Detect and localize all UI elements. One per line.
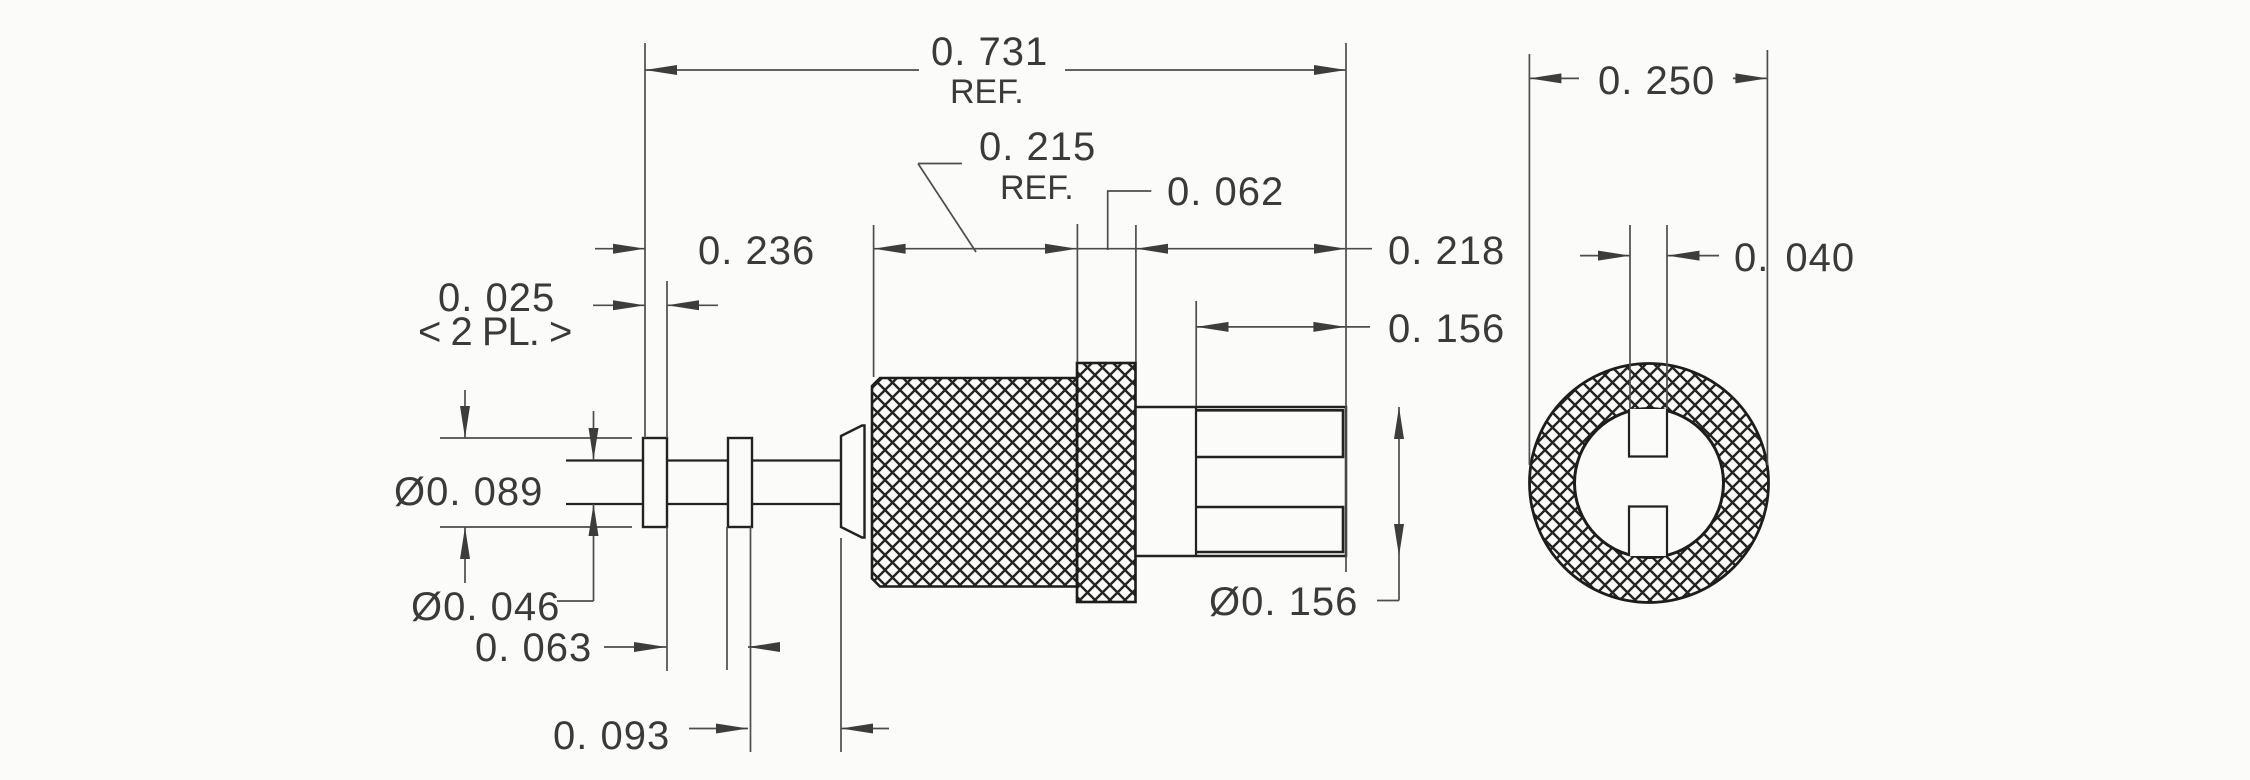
leader 0.215 slant bbox=[918, 164, 976, 253]
ext line cone left lower bbox=[840, 538, 842, 752]
knurl flange bbox=[1077, 363, 1136, 602]
bottom slot bbox=[1629, 507, 1667, 557]
ext line 0.731 right bbox=[1345, 43, 1347, 572]
arrow 0.093 right (points left) bbox=[841, 724, 873, 734]
ext line slot right 0.040 bbox=[1666, 225, 1668, 409]
dim line 0.025 bbox=[593, 304, 718, 306]
arrow 0.093 left (points right) bbox=[716, 724, 748, 734]
dim line 0.156 right side bbox=[1196, 326, 1370, 328]
svg-text:Ø0. 046: Ø0. 046 bbox=[411, 585, 560, 629]
svg-text:0. 250: 0. 250 bbox=[1598, 59, 1715, 103]
ext line slot left 0.040 bbox=[1629, 225, 1631, 409]
arrow dia156 top (points up) bbox=[1394, 407, 1404, 439]
ext line washer1 right upper bbox=[666, 281, 668, 438]
arrow 0.250 right (points right) bbox=[1735, 73, 1767, 83]
ext line washer1 right lower bbox=[666, 527, 668, 671]
arrow 0.156 left (points left) bbox=[1197, 322, 1229, 332]
svg-text:REF.: REF. bbox=[950, 73, 1024, 111]
svg-text:Ø0. 089: Ø0. 089 bbox=[394, 470, 543, 514]
dim line 0.040 bbox=[1580, 255, 1719, 257]
dim line 0.731 bbox=[645, 69, 1346, 71]
pin between washer2 and cone bbox=[752, 461, 841, 505]
slot lower tine bbox=[1196, 507, 1343, 552]
ext line 0.731 left bbox=[644, 43, 646, 438]
svg-text:Ø0. 156: Ø0. 156 bbox=[1209, 580, 1358, 624]
arrow 0.040 left (points right) bbox=[1598, 251, 1630, 261]
washer 1 bbox=[643, 438, 667, 527]
pin left stub edges bbox=[566, 461, 645, 505]
svg-text:0. 215: 0. 215 bbox=[979, 125, 1096, 169]
ext line 0.250 right bbox=[1766, 50, 1768, 465]
ext line flange left bbox=[1076, 224, 1078, 362]
svg-text:0. 093: 0. 093 bbox=[553, 714, 670, 758]
dim line 0.215 / 0.062 / 0.218 bbox=[874, 248, 1372, 250]
arrow 0.731 left bbox=[645, 65, 677, 75]
arrow dia046 bottom (points up) bbox=[589, 504, 599, 536]
svg-text:0. 731: 0. 731 bbox=[931, 30, 1048, 74]
dim line 0.093 bbox=[689, 728, 889, 730]
arrow dia156 bottom (points down) bbox=[1394, 524, 1404, 556]
svg-text:< 2 PL. >: < 2 PL. > bbox=[418, 310, 571, 354]
slot upper tine bbox=[1196, 410, 1343, 457]
arrow dia089 top (points down) bbox=[460, 406, 470, 438]
svg-text:0. 156: 0. 156 bbox=[1388, 307, 1505, 351]
arrow 0.215 left (points left) bbox=[874, 244, 906, 254]
inner bore bbox=[1575, 409, 1724, 558]
arrowheads bbox=[460, 65, 1767, 734]
rear cylinder slot inner end bbox=[1195, 407, 1197, 556]
arrow 0.731 right bbox=[1314, 65, 1346, 75]
ext line 0.250 left bbox=[1528, 54, 1530, 465]
dia 0.156 dim line vertical bbox=[1377, 407, 1399, 601]
ext line slot start bbox=[1195, 301, 1197, 406]
top slot bbox=[1629, 409, 1667, 457]
arrow 0.062 right (points left) bbox=[1136, 244, 1168, 254]
dia 0.046 arrow shafts bbox=[557, 411, 594, 601]
svg-text:0. 218: 0. 218 bbox=[1388, 229, 1505, 273]
arrow 0.025 left (points right) bbox=[613, 300, 645, 310]
arrow 0.218 right (points right) bbox=[1314, 244, 1346, 254]
arrow 0.063 right (points left) bbox=[748, 642, 780, 652]
svg-text:0. 063: 0. 063 bbox=[475, 626, 592, 670]
washer 2 bbox=[728, 438, 752, 527]
arrow 0.025 right (points left) bbox=[667, 300, 699, 310]
arrow 0.236 left (points right) bbox=[613, 244, 645, 254]
ext line washer2 left lower bbox=[726, 527, 728, 670]
dim line 0.063 bbox=[604, 646, 777, 648]
arrow 0.063 left (points right) bbox=[634, 642, 666, 652]
ext line knurl left bbox=[873, 225, 875, 377]
svg-text:0. 062: 0. 062 bbox=[1167, 170, 1284, 214]
dia 0.089 leader bottom bbox=[440, 526, 632, 528]
arrow 0.250 left (points left) bbox=[1529, 73, 1561, 83]
rear cylinder bbox=[1136, 407, 1347, 556]
dim line 0.250 bbox=[1529, 77, 1767, 79]
cone nose bbox=[841, 426, 865, 538]
arrow dia089 bottom (points up) bbox=[460, 527, 470, 559]
svg-text:0. 236: 0. 236 bbox=[698, 229, 815, 273]
arrow 0.040 right (points left) bbox=[1668, 251, 1700, 261]
svg-text:REF.: REF. bbox=[1000, 169, 1074, 207]
pin between washers bbox=[667, 461, 728, 505]
leader 0.062 bbox=[1108, 191, 1152, 250]
arrow 0.215 right (points right) bbox=[1045, 244, 1077, 254]
dia 0.089 arrows shafts bbox=[464, 390, 466, 583]
knurl body bbox=[872, 378, 1077, 587]
arrow dia046 top (points down) bbox=[589, 428, 599, 460]
leader 0.215 horizontal bbox=[918, 163, 962, 165]
ext line washer2 right lower bbox=[750, 527, 752, 752]
svg-text:0.040: 0.040 bbox=[1734, 236, 1855, 280]
ext line flange right bbox=[1135, 225, 1137, 362]
arrow 0.156 right (points right) bbox=[1313, 322, 1345, 332]
dim line 0.236 left arrow shaft bbox=[595, 248, 645, 250]
dia 0.089 leader top bbox=[440, 437, 632, 439]
outer ring hatched bbox=[1530, 364, 1769, 603]
